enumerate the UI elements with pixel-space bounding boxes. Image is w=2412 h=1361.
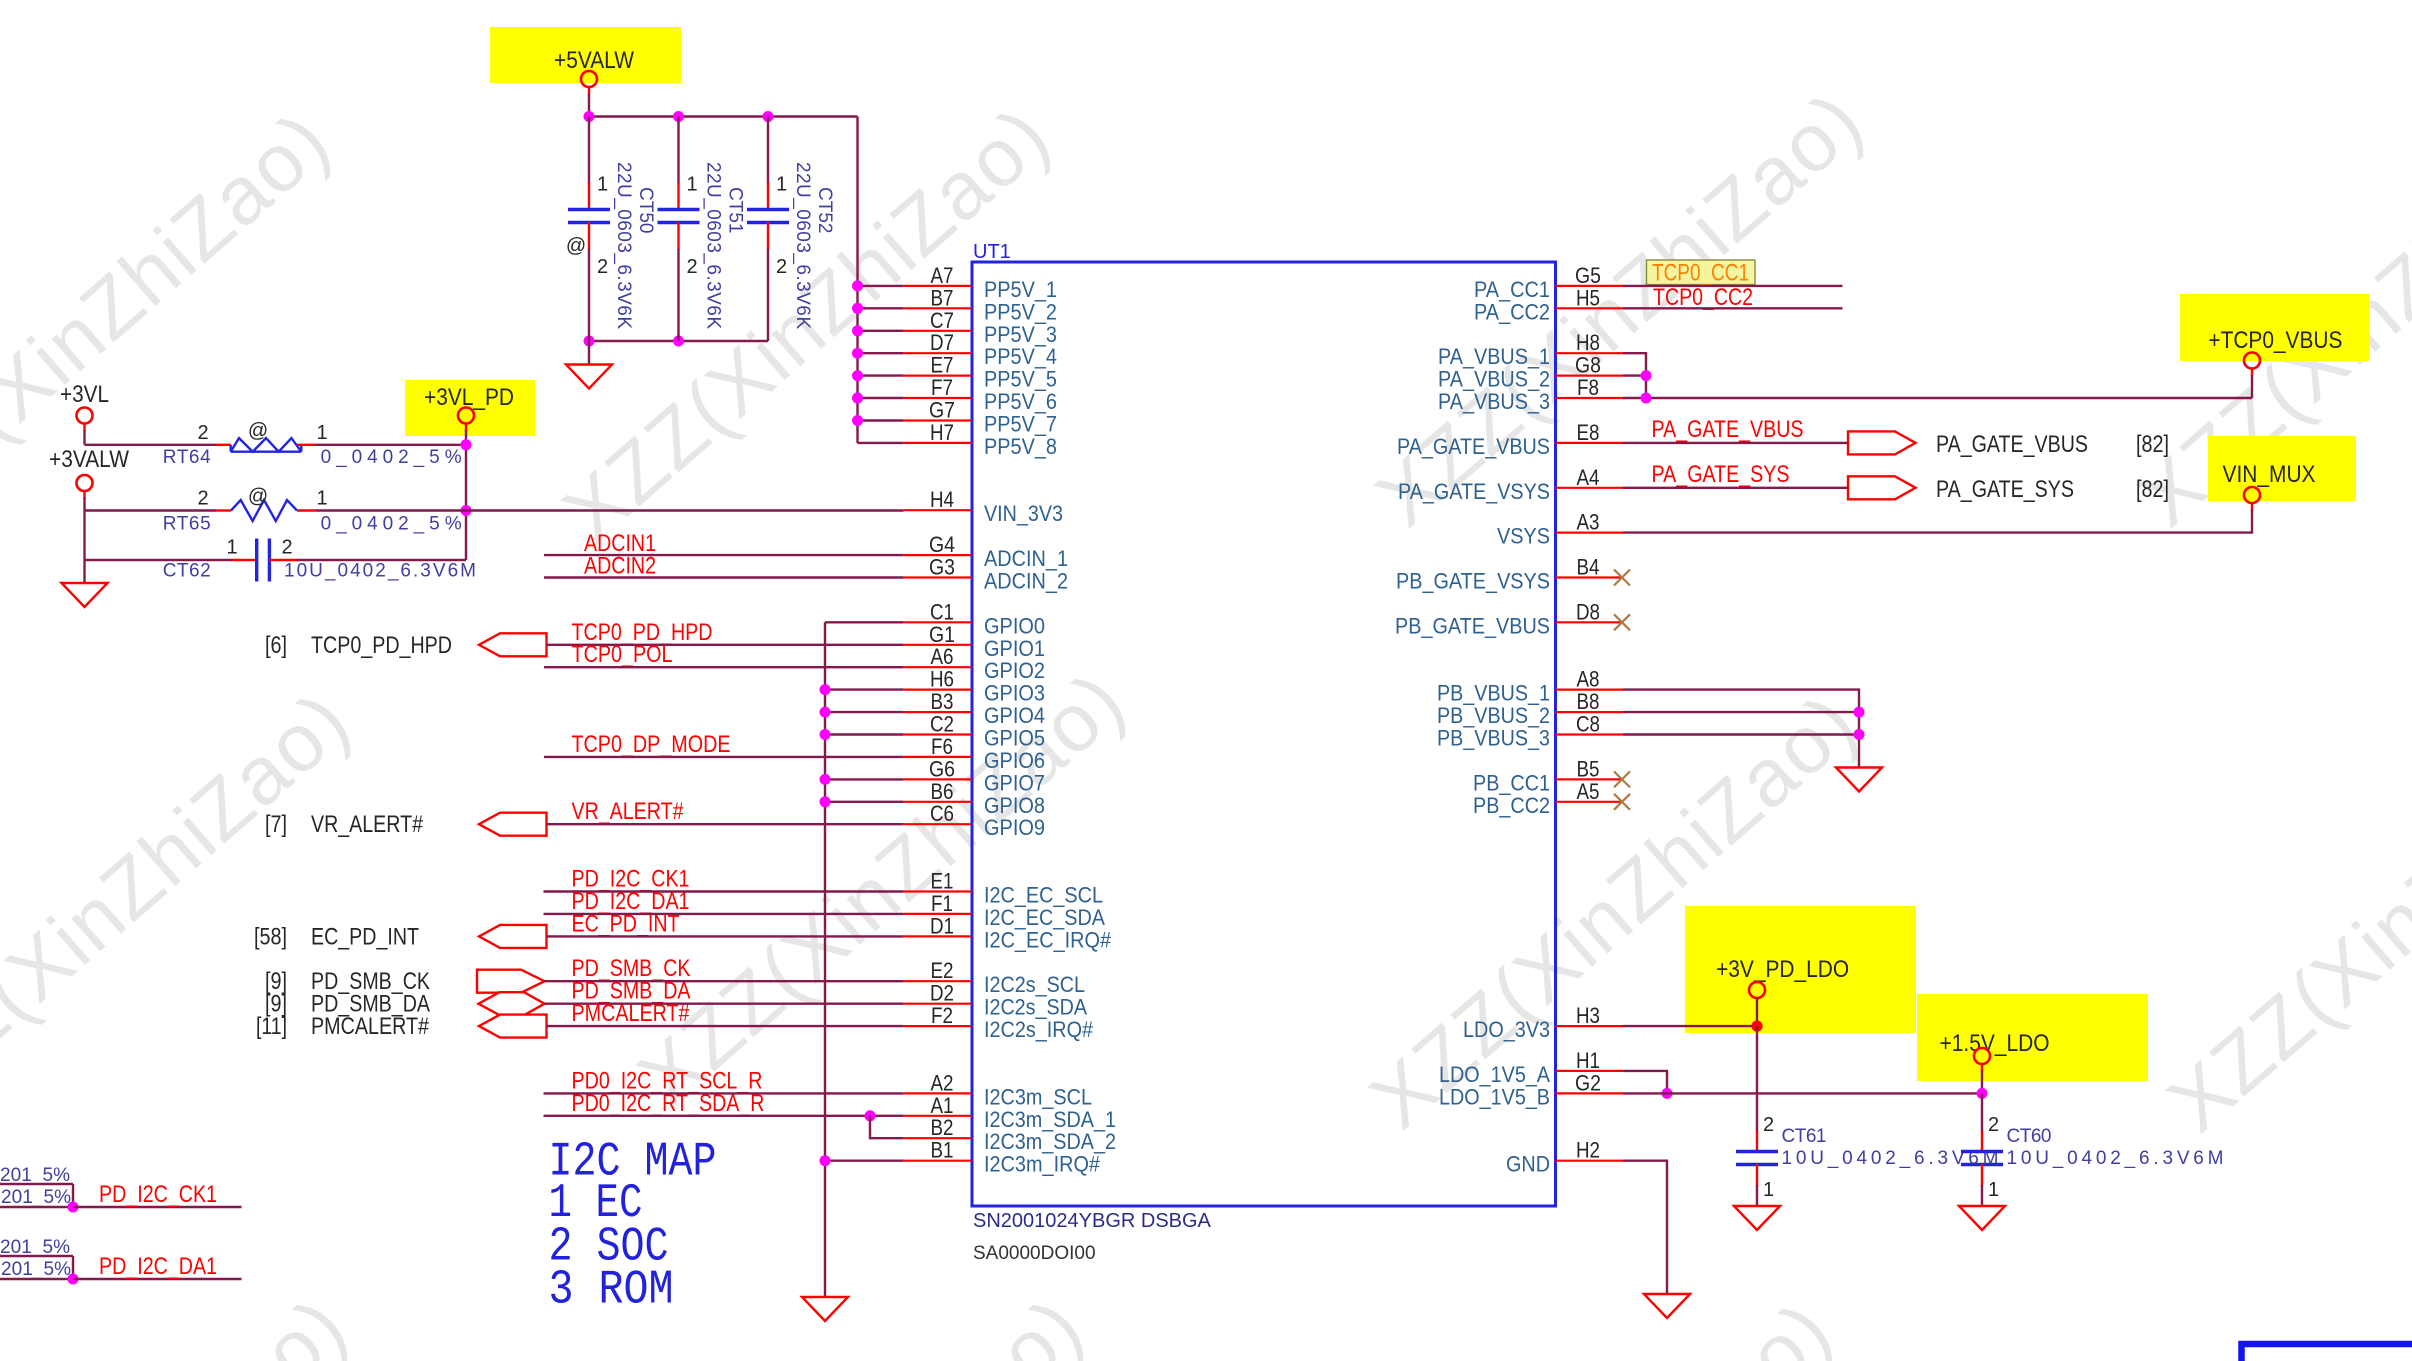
svg-text:PA_VBUS_1: PA_VBUS_1: [1438, 344, 1550, 369]
svg-text:G2: G2: [1575, 1070, 1601, 1095]
svg-text:1: 1: [687, 174, 698, 196]
junction dot pair 2: [68, 1274, 79, 1285]
svg-text:1: 1: [226, 537, 237, 559]
svg-text:SA0000DOI00: SA0000DOI00: [973, 1243, 1096, 1264]
no-connect pin B5: [1614, 771, 1630, 787]
port PA_GATE_SYS [82]: [1848, 476, 1916, 499]
power terminal +3V_PD_LDO: [1749, 982, 1765, 998]
svg-text:GPIO4: GPIO4: [984, 703, 1045, 728]
svg-text:GPIO7: GPIO7: [984, 770, 1045, 795]
svg-text:TCP0_POL: TCP0_POL: [572, 641, 673, 668]
svg-text:I2C2s_SCL: I2C2s_SCL: [984, 972, 1085, 997]
svg-text:LDO_1V5_A: LDO_1V5_A: [1439, 1062, 1550, 1087]
pin A7 PP5V_1: [904, 285, 972, 287]
svg-text:I2C_EC_IRQ#: I2C_EC_IRQ#: [984, 927, 1112, 952]
pin F7 PP5V_6: [904, 397, 972, 399]
pin B1 I2C3m_IRQ#: [904, 1160, 972, 1162]
junction dot pair 1: [68, 1202, 79, 1213]
svg-text:+TCP0_VBUS: +TCP0_VBUS: [2208, 327, 2342, 354]
capacitor CT61 10U_0402_6.3V6M: [1736, 1026, 1999, 1206]
svg-text:2: 2: [197, 488, 208, 510]
pin C6 GPIO9: [904, 823, 972, 825]
pin F8 PA_VBUS_3: [1556, 397, 1624, 399]
wires PP5V bus to pins: [858, 285, 904, 287]
svg-text:VIN_3V3: VIN_3V3: [984, 501, 1063, 526]
wire PA_GATE_VBUS pin E8: [1623, 442, 1848, 444]
svg-text:RT65: RT65: [163, 514, 211, 535]
wire PD_I2C_CK1 stub: [73, 1206, 242, 1208]
capacitor CT62 10U_0402_6.3V6M: [85, 559, 232, 561]
pin H3 LDO_3V3: [1556, 1025, 1624, 1027]
wire RT64 to +3VL_PD: [316, 444, 466, 446]
svg-text:2: 2: [687, 256, 698, 278]
svg-text:H2: H2: [1576, 1138, 1600, 1163]
svg-text:[82]: [82]: [2136, 476, 2169, 503]
svg-text:F7: F7: [931, 375, 953, 400]
pin A4 PA_GATE_VSYS: [1556, 487, 1624, 489]
pin B3 GPIO4: [904, 711, 972, 713]
svg-text:PMCALERT#: PMCALERT#: [311, 1013, 430, 1040]
svg-text:+5VALW: +5VALW: [554, 47, 634, 74]
wire PD_SMB_DA pin D2: [545, 1003, 904, 1005]
pin F1 I2C_EC_SDA: [904, 913, 972, 915]
junction dot RT64/+3VL_PD: [461, 439, 472, 450]
pin G3 ADCIN_2: [904, 576, 972, 578]
resistor RT65 0_0402_5%: [85, 509, 217, 511]
svg-text:@: @: [248, 420, 268, 442]
svg-text:TCP0_CC2: TCP0_CC2: [1653, 284, 1753, 311]
svg-text:I2C2s_IRQ#: I2C2s_IRQ#: [984, 1017, 1094, 1042]
wire pin B2: [870, 1116, 904, 1138]
svg-text:PP5V_1: PP5V_1: [984, 277, 1057, 302]
pin H5 PA_CC2: [1556, 307, 1624, 309]
pin B8 PB_VBUS_2: [1556, 711, 1624, 713]
pin A1 I2C3m_SDA_1: [904, 1115, 972, 1117]
svg-text:CT61: CT61: [1782, 1126, 1827, 1147]
svg-text:[7]: [7]: [265, 811, 287, 838]
wire PMCALERT# pin F2: [546, 1025, 903, 1027]
svg-text:[11]: [11]: [256, 1013, 287, 1040]
junction dot LDO_1V5: [1662, 1088, 1673, 1099]
wire LDO_3V3 pin H3: [1623, 1025, 1757, 1027]
svg-text:D8: D8: [1576, 599, 1600, 624]
svg-text:B8: B8: [1577, 689, 1600, 714]
svg-text:B4: B4: [1577, 555, 1600, 580]
power terminal +1.5V_LDO: [1974, 1048, 1990, 1064]
power net label +3VL_PD: [405, 380, 535, 436]
svg-text:1: 1: [776, 174, 787, 196]
wire PD0_I2C_RT_SCL_R pin A2: [544, 1092, 904, 1094]
power net label +5VALW: [490, 27, 681, 83]
svg-text:LDO_3V3: LDO_3V3: [1463, 1017, 1550, 1042]
svg-text:10U_0402_6.3V6M: 10U_0402_6.3V6M: [284, 561, 476, 582]
pin G4 ADCIN_1: [904, 554, 972, 556]
svg-text:F6: F6: [931, 734, 953, 759]
power net label +TCP0_VBUS: [2180, 294, 2369, 361]
svg-text:CT51: CT51: [725, 187, 746, 233]
svg-text:0_0402_5%: 0_0402_5%: [321, 447, 462, 468]
wire PD_I2C_DA1 pin F1: [544, 913, 904, 915]
svg-text:@: @: [248, 486, 268, 508]
svg-text:C8: C8: [1576, 712, 1600, 737]
wire TCP0_CC1 pin G5: [1623, 285, 1843, 287]
svg-text:201_5%: 201_5%: [1, 1259, 71, 1280]
pin E1 I2C_EC_SCL: [904, 890, 972, 892]
svg-text:EC_PD_INT: EC_PD_INT: [572, 910, 680, 937]
wire ADCIN2 pin G3: [544, 576, 904, 578]
wire PB_VBUS_3 pin C8: [1623, 733, 1859, 735]
wire EC_PD_INT pin D1: [546, 935, 903, 937]
svg-text:XZZ(XinZhiZao): XZZ(XinZhiZao): [0, 1280, 364, 1361]
svg-text:I2C3m_SDA_1: I2C3m_SDA_1: [984, 1107, 1116, 1132]
svg-text:ADCIN_2: ADCIN_2: [984, 569, 1068, 594]
svg-text:B3: B3: [931, 689, 954, 714]
title block border corner: [2242, 1344, 2412, 1361]
pin F6 GPIO6: [904, 756, 972, 758]
pin C1 GPIO0: [904, 621, 972, 623]
pin E8 PA_GATE_VBUS: [1556, 442, 1624, 444]
svg-text:TCP0_PD_HPD: TCP0_PD_HPD: [311, 632, 452, 659]
power terminal +5VALW: [581, 71, 597, 87]
svg-text:CT52: CT52: [814, 187, 835, 233]
wire +3VALW vertical: [83, 491, 85, 499]
svg-text:C1: C1: [930, 599, 954, 624]
svg-text:[82]: [82]: [2136, 431, 2169, 458]
svg-text:GND: GND: [1506, 1152, 1550, 1177]
wire ADCIN1 pin G4: [544, 554, 904, 556]
wire GPIO8 pin B6: [825, 801, 904, 803]
pin C2 GPIO5: [904, 733, 972, 735]
pin D8 PB_GATE_VBUS: [1556, 621, 1624, 623]
power net label VIN_MUX: [2208, 436, 2356, 501]
svg-text:PB_GATE_VBUS: PB_GATE_VBUS: [1395, 613, 1550, 638]
wire PD0_I2C_RT_SDA_R pin A1: [544, 1115, 904, 1117]
svg-text:H6: H6: [930, 667, 954, 692]
svg-text:XZZ(XinZhiZao): XZZ(XinZhiZao): [2151, 679, 2412, 1149]
svg-text:0_0402_5%: 0_0402_5%: [321, 514, 462, 535]
svg-text:I2C_EC_SDA: I2C_EC_SDA: [984, 905, 1105, 930]
wire PB_VBUS_1 pin A8: [1623, 690, 1859, 768]
svg-text:GPIO2: GPIO2: [984, 658, 1045, 683]
pin G5 PA_CC1: [1556, 285, 1624, 287]
pin F2 I2C2s_IRQ#: [904, 1025, 972, 1027]
wire GPIO4 pin B3: [825, 711, 904, 713]
svg-text:CT60: CT60: [2007, 1126, 2052, 1147]
wire PB_VBUS_2 pin B8: [1623, 711, 1859, 713]
pin B6 GPIO8: [904, 801, 972, 803]
svg-text:VR_ALERT#: VR_ALERT#: [572, 798, 685, 825]
pin A5 PB_CC2: [1556, 801, 1624, 803]
svg-text:PD_I2C_DA1: PD_I2C_DA1: [99, 1253, 217, 1280]
wire +3V_PD_LDO vertical: [1756, 998, 1758, 1026]
svg-text:PP5V_7: PP5V_7: [984, 412, 1057, 437]
power net label +3V_PD_LDO: [1685, 906, 1916, 1033]
svg-text:G8: G8: [1575, 353, 1601, 378]
svg-text:GPIO6: GPIO6: [984, 748, 1045, 773]
wire PA_VBUS_1 pin H8: [1623, 353, 1646, 398]
svg-text:10U_0402_6.3V6M: 10U_0402_6.3V6M: [2007, 1148, 2224, 1169]
pin E7 PP5V_5: [904, 375, 972, 377]
junction dot RT65/H4: [461, 505, 472, 516]
pin G7 PP5V_7: [904, 419, 972, 421]
pin B5 PB_CC1: [1556, 778, 1624, 780]
svg-text:GPIO9: GPIO9: [984, 815, 1045, 840]
pin B4 PB_GATE_VSYS: [1556, 576, 1624, 578]
svg-text:PA_VBUS_2: PA_VBUS_2: [1438, 367, 1550, 392]
svg-text:D1: D1: [930, 913, 954, 938]
junction dot LDO_3V3 red: [1751, 1021, 1762, 1032]
pin A3 VSYS: [1556, 531, 1624, 533]
svg-text:H3: H3: [1576, 1003, 1600, 1028]
svg-text:RT64: RT64: [163, 447, 211, 468]
svg-text:E1: E1: [931, 869, 954, 894]
svg-text:[58]: [58]: [254, 923, 287, 950]
svg-text:B7: B7: [931, 285, 954, 310]
svg-text:VSYS: VSYS: [1497, 524, 1550, 549]
svg-text:E7: E7: [931, 353, 954, 378]
svg-text:G4: G4: [929, 532, 955, 557]
capacitor CT60 10U_0402_6.3V6M: [1961, 1093, 2224, 1206]
svg-text:B1: B1: [931, 1138, 954, 1163]
junction dot I2C3m_SDA: [865, 1110, 876, 1121]
wire LDO_1V5_B pin G2: [1623, 1092, 1982, 1094]
svg-text:CT50: CT50: [635, 187, 656, 233]
pin H6 GPIO3: [904, 688, 972, 690]
svg-text:PA_CC1: PA_CC1: [1474, 277, 1550, 302]
svg-text:TCP0_DP_MODE: TCP0_DP_MODE: [572, 731, 731, 758]
svg-text:F8: F8: [1577, 375, 1599, 400]
pin D7 PP5V_4: [904, 352, 972, 354]
svg-text:GPIO0: GPIO0: [984, 613, 1045, 638]
svg-text:EC_PD_INT: EC_PD_INT: [311, 923, 419, 950]
svg-text:XZZ(XinZhiZao): XZZ(XinZhiZao): [0, 94, 347, 564]
svg-text:+3VL: +3VL: [60, 381, 109, 408]
svg-text:PB_VBUS_2: PB_VBUS_2: [1437, 703, 1550, 728]
svg-text:PA_GATE_SYS: PA_GATE_SYS: [1936, 476, 2074, 503]
wire capacitor bank bottom rail: [589, 340, 768, 342]
svg-text:1: 1: [316, 422, 327, 444]
net highlight TCP0_CC1: [1647, 260, 1756, 285]
svg-text:22U_0603_6.3V6K: 22U_0603_6.3V6K: [613, 162, 634, 329]
wire GPIO5 pin C2: [825, 733, 904, 735]
wire +TCP0_VBUS vertical: [2251, 369, 2253, 377]
svg-text:PP5V_5: PP5V_5: [984, 367, 1057, 392]
svg-text:2: 2: [1988, 1114, 1999, 1136]
svg-text:1: 1: [1763, 1179, 1774, 1201]
pin A2 I2C3m_SCL: [904, 1092, 972, 1094]
power terminal +3VL_PD: [458, 408, 474, 424]
svg-text:G7: G7: [929, 398, 955, 423]
svg-text:1: 1: [597, 174, 608, 196]
svg-text:PA_VBUS_3: PA_VBUS_3: [1438, 389, 1550, 414]
pin G1 GPIO1: [904, 644, 972, 646]
pin D2 I2C2s_SDA: [904, 1003, 972, 1005]
power net label +1.5V_LDO: [1917, 994, 2148, 1081]
pin C8 PB_VBUS_3: [1556, 733, 1624, 735]
svg-text:C7: C7: [930, 308, 954, 333]
wire PA_VBUS_2 pin G8: [1623, 374, 1646, 376]
svg-text:GPIO8: GPIO8: [984, 793, 1045, 818]
svg-text:VIN_MUX: VIN_MUX: [2223, 461, 2316, 488]
svg-text:A2: A2: [931, 1070, 954, 1095]
svg-text:UT1: UT1: [973, 241, 1011, 263]
svg-text:A8: A8: [1577, 667, 1600, 692]
resistor RT64 0_0402_5%: [216, 444, 231, 446]
wire PD_I2C_CK1 pin E1: [544, 890, 904, 892]
svg-text:1: 1: [1988, 1179, 1999, 1201]
ground +3VALW/CT62: [62, 583, 108, 607]
svg-text:2: 2: [776, 256, 787, 278]
pin H8 PA_VBUS_1: [1556, 352, 1624, 354]
ground CT60: [1959, 1206, 2005, 1230]
svg-text:H8: H8: [1576, 330, 1600, 355]
wire PA_VBUS_3 pin F8 to +TCP0_VBUS: [1623, 397, 2252, 399]
svg-text:F2: F2: [931, 1003, 953, 1028]
pin B2 I2C3m_SDA_2: [904, 1137, 972, 1139]
svg-text:TCP0_CC1: TCP0_CC1: [1652, 260, 1749, 287]
svg-text:I2C3m_SDA_2: I2C3m_SDA_2: [984, 1129, 1116, 1154]
svg-text:3 ROM: 3 ROM: [549, 1264, 674, 1318]
svg-text:H7: H7: [930, 420, 954, 445]
svg-text:C6: C6: [930, 801, 954, 826]
svg-text:2: 2: [1763, 1114, 1774, 1136]
svg-text:G1: G1: [929, 622, 955, 647]
no-connect pin A5: [1614, 794, 1630, 810]
svg-text:ADCIN_1: ADCIN_1: [984, 546, 1068, 571]
svg-text:PP5V_3: PP5V_3: [984, 322, 1057, 347]
svg-text:LDO_1V5_B: LDO_1V5_B: [1439, 1084, 1550, 1109]
svg-text:VR_ALERT#: VR_ALERT#: [311, 811, 424, 838]
svg-text:@: @: [566, 235, 586, 257]
ground CT61: [1734, 1206, 1780, 1230]
svg-text:A3: A3: [1577, 510, 1600, 535]
wire VR_ALERT# pin C6: [546, 823, 903, 825]
svg-text:PP5V_6: PP5V_6: [984, 389, 1057, 414]
svg-text:CT62: CT62: [163, 561, 211, 582]
wire GPIO3 pin H6: [825, 688, 904, 690]
svg-text:XZZ(XinZhiZao): XZZ(XinZhiZao): [0, 674, 367, 1144]
svg-text:D2: D2: [930, 981, 954, 1006]
svg-text:PA_GATE_VSYS: PA_GATE_VSYS: [1398, 479, 1550, 504]
wire GPIO bus vertical: [824, 622, 826, 1297]
svg-text:PD_I2C_CK1: PD_I2C_CK1: [99, 1181, 217, 1208]
svg-text:PB_GATE_VSYS: PB_GATE_VSYS: [1396, 569, 1550, 594]
wire +1.5V_LDO vertical: [1981, 1064, 1983, 1072]
power terminal VIN_MUX: [2244, 487, 2260, 503]
wires resistor pair 2: [0, 1255, 73, 1257]
svg-text:+3VALW: +3VALW: [49, 446, 129, 473]
svg-text:C2: C2: [930, 712, 954, 737]
wire +5VALW vertical: [588, 87, 590, 96]
wire PD_I2C_DA1 stub: [73, 1278, 242, 1280]
svg-text:PA_GATE_VBUS: PA_GATE_VBUS: [1652, 416, 1804, 443]
capacitor CT52 22U_0603_6.3V6K: [747, 117, 835, 342]
svg-text:201_5%: 201_5%: [1, 1187, 71, 1208]
capacitor CT51 22U_0603_6.3V6K: [658, 117, 746, 342]
port PA_GATE_VBUS [82]: [1848, 431, 1916, 454]
svg-text:ADCIN2: ADCIN2: [584, 553, 656, 580]
wire PA_GATE_SYS pin A4: [1623, 487, 1848, 489]
svg-text:PB_VBUS_1: PB_VBUS_1: [1437, 681, 1550, 706]
svg-text:H1: H1: [1576, 1048, 1600, 1073]
svg-text:+1.5V_LDO: +1.5V_LDO: [1940, 1030, 2050, 1057]
svg-text:PB_VBUS_3: PB_VBUS_3: [1437, 726, 1550, 751]
svg-text:[6]: [6]: [265, 632, 287, 659]
svg-text:SN2001024YBGR DSBGA: SN2001024YBGR DSBGA: [973, 1210, 1212, 1232]
svg-text:F1: F1: [931, 891, 953, 916]
svg-text:D7: D7: [930, 330, 954, 355]
svg-text:22U_0603_6.3V6K: 22U_0603_6.3V6K: [792, 162, 813, 329]
svg-text:I2C3m_IRQ#: I2C3m_IRQ#: [984, 1152, 1101, 1177]
svg-text:1: 1: [316, 488, 327, 510]
svg-text:PD0_I2C_RT_SDA_R: PD0_I2C_RT_SDA_R: [572, 1090, 765, 1117]
wire capacitor bank top rail: [589, 115, 858, 117]
pin H2 GND: [1556, 1160, 1624, 1162]
svg-text:PB_CC2: PB_CC2: [1473, 793, 1550, 818]
svg-text:PA_GATE_VBUS: PA_GATE_VBUS: [1397, 434, 1550, 459]
pin E2 I2C2s_SCL: [904, 980, 972, 982]
svg-text:A6: A6: [931, 644, 954, 669]
svg-text:E8: E8: [1577, 420, 1600, 445]
wire +3VL_PD vertical: [465, 424, 467, 432]
svg-text:PA_GATE_SYS: PA_GATE_SYS: [1652, 461, 1790, 488]
svg-text:GPIO3: GPIO3: [984, 681, 1045, 706]
pin H1 LDO_1V5_A: [1556, 1070, 1624, 1072]
wire GPIO0 pin C1: [825, 621, 904, 623]
svg-text:GPIO1: GPIO1: [984, 636, 1045, 661]
svg-text:PP5V_4: PP5V_4: [984, 344, 1057, 369]
pin H7 PP5V_8: [904, 442, 972, 444]
no-connect pin B4: [1614, 570, 1630, 586]
pin B7 PP5V_2: [904, 307, 972, 309]
wire TCP0_PD_HPD pin G1: [546, 644, 903, 646]
IC UT1 outline: [972, 262, 1556, 1206]
capacitor CT50 22U_0603_6.3V6K: [568, 117, 656, 342]
svg-text:I2C_EC_SCL: I2C_EC_SCL: [984, 883, 1103, 908]
ground PB_VBUS: [1836, 768, 1882, 792]
svg-text:PA_GATE_VBUS: PA_GATE_VBUS: [1936, 431, 2088, 458]
svg-text:2: 2: [197, 422, 208, 444]
wire VSYS pin A3 to VIN_MUX: [2251, 503, 2253, 511]
svg-text:A5: A5: [1577, 779, 1600, 804]
svg-text:GPIO5: GPIO5: [984, 726, 1045, 751]
svg-text:A1: A1: [931, 1093, 954, 1118]
junction dot G2/+1.5V_LDO: [1977, 1088, 1988, 1099]
svg-text:E2: E2: [931, 958, 954, 983]
pin G6 GPIO7: [904, 778, 972, 780]
svg-text:PA_CC2: PA_CC2: [1474, 299, 1550, 324]
svg-text:B6: B6: [931, 779, 954, 804]
svg-text:PP5V_8: PP5V_8: [984, 434, 1057, 459]
wire RT65 to pin H4 VIN_3V3: [316, 509, 904, 511]
ground capacitor bank: [588, 341, 590, 366]
ground GND pin: [1644, 1294, 1690, 1318]
wires resistor pair 1: [0, 1183, 73, 1185]
wire TCP0_CC2 pin H5: [1623, 307, 1843, 309]
svg-text:G5: G5: [1575, 263, 1601, 288]
svg-text:I2C3m_SCL: I2C3m_SCL: [984, 1084, 1092, 1109]
svg-text:B5: B5: [1577, 756, 1600, 781]
svg-text:I2C2s_SDA: I2C2s_SDA: [984, 995, 1087, 1020]
wire TCP0_DP_MODE pin F6: [544, 756, 904, 758]
pin D1 I2C_EC_IRQ#: [904, 935, 972, 937]
pin H4 VIN_3V3: [904, 509, 972, 511]
wire LDO_1V5_A pin H1: [1623, 1071, 1667, 1094]
svg-text:H5: H5: [1576, 285, 1600, 310]
pin A6 GPIO2: [904, 666, 972, 668]
wire PD_SMB_CK pin E2: [545, 980, 904, 982]
pin A8 PB_VBUS_1: [1556, 688, 1624, 690]
